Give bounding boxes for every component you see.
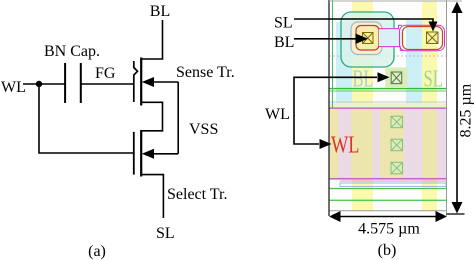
svg-text:SL: SL (156, 225, 175, 242)
arrowhead WL top arm (378, 72, 390, 82)
active area teal rounded rect (341, 12, 394, 67)
BL pad inner red rounded rect (356, 26, 379, 51)
svg-text:SL: SL (274, 15, 293, 32)
active area interior tint (342, 13, 393, 66)
svg-text:(b): (b) (378, 242, 397, 259)
svg-text:8.25 µm: 8.25 µm (458, 83, 474, 137)
metal yellow band BL column (352, 1, 373, 211)
svg-text:BL: BL (353, 67, 374, 93)
green contact pad square (385, 67, 407, 88)
gray line (329, 101, 447, 103)
arrowhead dim bottom (452, 202, 463, 214)
layout right border (446, 0, 448, 216)
WL region magenta top border (329, 107, 447, 109)
svg-text:Select Tr.: Select Tr. (167, 186, 227, 203)
bulk arrow (142, 77, 154, 87)
svg-text:BL: BL (150, 3, 170, 20)
layout background (329, 1, 447, 211)
wire FG from capacitor to Sense Tr. gate (81, 83, 134, 85)
wire WL bracket (294, 77, 377, 144)
svg-text:BL: BL (274, 34, 294, 51)
green horizontal line upper second (329, 90, 447, 92)
svg-text:WL: WL (265, 106, 290, 123)
wire BL vertical to Sense Tr. drain (141, 20, 162, 59)
layout top border (329, 0, 462, 2)
BL pad outer lavender rounded rect (351, 22, 382, 55)
dimension 4.575 um horizontal line (335, 216, 441, 218)
metal1 magenta wire (379, 25, 404, 50)
green line below blue band (329, 188, 447, 190)
svg-text:BN Cap.: BN Cap. (44, 43, 100, 60)
wire WL down and to Select Tr. gate (39, 84, 134, 153)
blue band line (340, 183, 446, 186)
transistor Q2 Select Tr. (134, 130, 154, 177)
svg-text:WL: WL (331, 133, 360, 159)
arrowhead dim right (436, 211, 448, 222)
transistor Q1 Sense Tr. (134, 58, 154, 106)
dimension tick bottom right (447, 213, 465, 215)
WL region yellow band 2 (351, 108, 373, 179)
wire WL horizontal (23, 83, 65, 85)
arrowhead BL (356, 34, 369, 45)
svg-text:(a): (a) (88, 243, 106, 260)
lavender dotted line (329, 55, 447, 57)
green horizontal line lower (329, 199, 447, 201)
channel bar (140, 130, 142, 177)
contact poly squares in WL region (391, 116, 403, 174)
pink line below WL region (340, 180, 447, 182)
bulk arrow (142, 149, 154, 159)
contact SL square (427, 32, 439, 44)
arrowhead SL (429, 22, 438, 32)
SL pad red rounded rect (403, 27, 443, 50)
dimension 8.25 um vertical line (456, 8, 458, 207)
green vertical active line (332, 0, 334, 108)
gate bar with floating-gate hook (134, 61, 138, 102)
contact WL-strap square (391, 72, 402, 84)
wire SL pointer line (294, 19, 433, 23)
svg-text:SL: SL (424, 67, 444, 93)
wire Sense bulk (152, 81, 178, 83)
channel bar (140, 58, 142, 106)
capacitor BN Cap. plates (65, 63, 81, 103)
arrowhead WL bottom arm (320, 139, 332, 149)
wire Sense source to Select drain (141, 102, 162, 131)
gate bar (133, 132, 135, 175)
wire Select source to SL (141, 175, 163, 218)
metal1 wire cyan fill (379, 29, 403, 47)
WL region yellow band 3 (380, 108, 404, 179)
diffusion cyan band left (336, 22, 352, 108)
wire VSS vertical bulk tie (177, 82, 179, 154)
green horizontal line upper (329, 88, 447, 90)
metal yellow band SL column (422, 1, 437, 211)
WL region yellow band 1 (330, 108, 339, 179)
WL region magenta bottom border (329, 178, 447, 180)
WL region yellow band 4 (422, 108, 437, 179)
pale green row (330, 103, 447, 107)
layout left border (328, 0, 330, 216)
svg-text:4.575 µm: 4.575 µm (358, 221, 420, 238)
arrowhead dim top (452, 2, 463, 14)
WL poly region pink (329, 108, 447, 179)
svg-text:Sense Tr.: Sense Tr. (176, 64, 235, 81)
diffusion cyan band right (406, 20, 422, 108)
wire BL pointer line (294, 38, 357, 40)
magenta wrap around SL pad (400, 25, 445, 50)
contact BL square (363, 33, 374, 44)
svg-text:FG: FG (95, 65, 116, 82)
wire Select bulk (152, 153, 178, 155)
node WL junction dot (36, 81, 42, 87)
svg-text:WL: WL (1, 79, 26, 96)
arrowhead dim left (329, 211, 341, 222)
svg-text:VSS: VSS (189, 121, 218, 138)
layout bottom faint border (329, 210, 447, 212)
